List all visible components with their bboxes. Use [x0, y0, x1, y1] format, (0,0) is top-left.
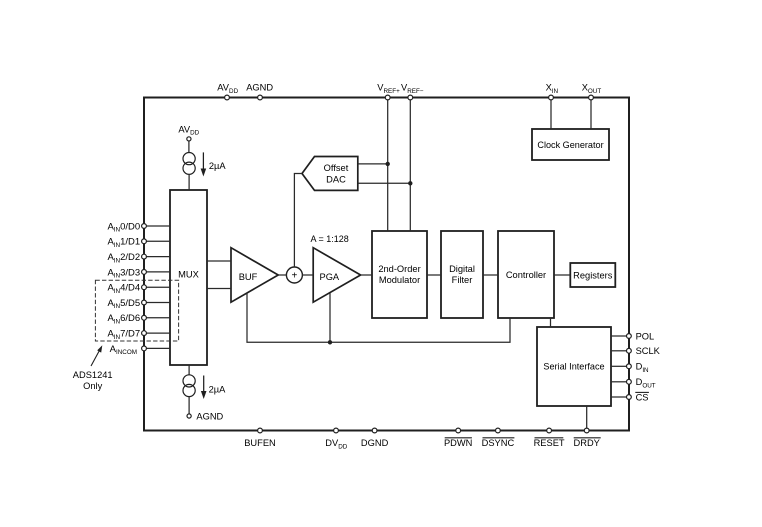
wire MUX out A to BUF [207, 260, 231, 262]
junction VREF+ tap [386, 162, 390, 166]
wire current source I1 to MUX [188, 174, 190, 190]
svg-text:2µA: 2µA [209, 384, 227, 394]
wire BUF feedback down [247, 293, 510, 342]
svg-text:AIN7/D7: AIN7/D7 [107, 329, 140, 341]
top pin XIN [546, 83, 559, 100]
input pin AIN3/D3 [107, 267, 170, 279]
wire XIN to clock generator [550, 99, 552, 130]
wire XOUT to clock generator [590, 99, 592, 130]
wire offset DAC to VREF- rail [358, 182, 411, 184]
svg-text:DSYNC: DSYNC [482, 438, 515, 448]
input pin AIN0/D0 [107, 221, 170, 233]
top pin AGND [246, 83, 273, 100]
label ADS1241 Only [73, 370, 113, 391]
junction VREF- tap [408, 181, 412, 185]
svg-text:AGND: AGND [246, 83, 273, 93]
svg-text:SCLK: SCLK [636, 346, 661, 356]
buffer amp BUF [231, 248, 278, 303]
svg-text:AIN5/D5: AIN5/D5 [107, 298, 140, 310]
chip outline rectangle [144, 98, 629, 431]
bottom pin BUFEN [244, 428, 276, 448]
svg-text:Registers: Registers [573, 270, 613, 280]
svg-text:Modulator: Modulator [379, 275, 420, 285]
wire serial interface to DRDY pin [586, 406, 588, 430]
wire VREF+ rail [387, 99, 389, 232]
svg-text:DRDY: DRDY [574, 438, 600, 448]
input pin AIN7/D7 [107, 329, 170, 341]
input pin AIN6/D6 [107, 313, 170, 325]
current source I2 (2uA) [183, 375, 195, 397]
svg-text:Only: Only [83, 381, 102, 391]
input pin AIN5/D5 [107, 298, 170, 310]
digital filter block [441, 231, 483, 318]
bottom pin DVDD [325, 428, 347, 450]
wire MUX to current source I2 [188, 365, 190, 375]
svg-text:+: + [291, 270, 297, 281]
controller block [498, 231, 554, 318]
AGND terminal bottom [187, 414, 191, 418]
svg-text:Digital: Digital [449, 264, 475, 274]
wire PGA to modulator [361, 274, 372, 276]
input pin AIN4/D4 [107, 283, 170, 295]
right pin POL [611, 331, 654, 341]
junction feedback node [328, 340, 332, 344]
svg-text:2nd-Order: 2nd-Order [378, 264, 420, 274]
offset DAC pentagon [302, 157, 358, 191]
svg-text:Serial Interface: Serial Interface [543, 362, 604, 372]
svg-text:POL: POL [636, 331, 655, 341]
arrow current direction I1 [201, 152, 207, 176]
svg-text:AIN4/D4: AIN4/D4 [107, 283, 140, 295]
wire offset DAC output to summing node [294, 174, 302, 268]
top pin VREF- [401, 83, 424, 100]
input pin AIN2/D2 [107, 252, 170, 264]
bottom pin PDWN (active low) [444, 428, 472, 448]
input pin AIN1/D1 [107, 237, 170, 249]
top pin XOUT [582, 83, 602, 100]
serial interface block [537, 327, 611, 406]
wire AVDD terminal to current source [188, 141, 190, 152]
svg-text:ADS1241: ADS1241 [73, 370, 113, 380]
svg-text:CS: CS [636, 392, 649, 402]
svg-text:A = 1:128: A = 1:128 [311, 234, 349, 244]
svg-text:RESET: RESET [534, 438, 565, 448]
svg-text:AIN1/D1: AIN1/D1 [107, 237, 140, 249]
svg-text:Clock Generator: Clock Generator [537, 140, 603, 150]
bottom pin DSYNC (active low) [482, 428, 515, 448]
svg-text:Filter: Filter [452, 275, 473, 285]
svg-text:PGA: PGA [320, 272, 340, 282]
svg-text:BUF: BUF [239, 272, 258, 282]
MUX U-mux [170, 190, 207, 365]
right pin SCLK [611, 346, 661, 356]
top pin AVDD [217, 83, 238, 100]
wire MUX out B to BUF [207, 288, 231, 290]
top pin VREF+ [377, 83, 400, 100]
svg-text:AGND: AGND [196, 411, 223, 421]
svg-text:DGND: DGND [361, 438, 389, 448]
arrow ADS1241 callout [91, 345, 102, 366]
svg-text:AIN0/D0: AIN0/D0 [107, 221, 140, 233]
right pin CS (active low) [611, 392, 649, 402]
current source I1 (2uA) [183, 153, 195, 175]
svg-text:DAC: DAC [326, 175, 346, 185]
svg-text:Offset: Offset [324, 163, 349, 173]
svg-text:2µA: 2µA [209, 161, 227, 171]
wire modulator to digital filter [427, 274, 441, 276]
bottom pin RESET (active low) [534, 428, 565, 448]
top current source: AVDD terminal [187, 137, 191, 141]
svg-text:AIN6/D6: AIN6/D6 [107, 313, 140, 325]
wire BUF to summing node [278, 274, 287, 276]
wire controller to registers [554, 274, 570, 276]
PGA amp [313, 248, 360, 303]
input pin AINCOM [110, 344, 170, 356]
svg-text:Controller: Controller [506, 270, 546, 280]
svg-text:BUFEN: BUFEN [244, 438, 276, 448]
svg-text:MUX: MUX [178, 269, 199, 279]
summing node [286, 267, 302, 283]
wire digital filter to controller [483, 274, 498, 276]
right pin DOUT [611, 377, 656, 389]
wire summing node to PGA [302, 274, 313, 276]
bottom pin DGND [361, 428, 389, 448]
wire PGA bottom to feedback [329, 293, 331, 343]
svg-text:PDWN: PDWN [444, 438, 472, 448]
registers block [570, 263, 615, 287]
wire VREF- rail [409, 99, 411, 232]
clock generator block [532, 129, 609, 160]
svg-text:AIN2/D2: AIN2/D2 [107, 252, 140, 264]
2nd-order modulator block [372, 231, 427, 318]
wire controller to serial interface [550, 318, 552, 327]
wire current source I2 to AGND terminal [188, 397, 190, 414]
bottom pin DRDY (active low) [574, 428, 601, 448]
arrow current direction I2 [201, 376, 207, 400]
wire offset DAC to VREF+ rail [358, 163, 388, 165]
svg-text:AIN3/D3: AIN3/D3 [107, 267, 140, 279]
dashed box ADS1241 only [95, 280, 178, 341]
right pin DIN [611, 362, 649, 374]
